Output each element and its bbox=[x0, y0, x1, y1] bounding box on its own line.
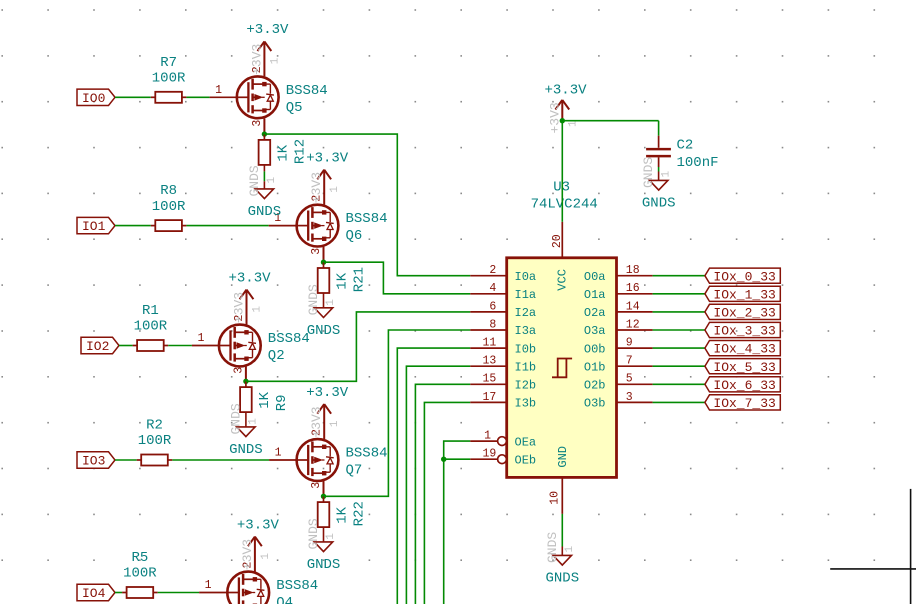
svg-text:IOx_5_33: IOx_5_33 bbox=[713, 360, 775, 375]
wire O1a to IOx_1_33 bbox=[653, 293, 705, 295]
wire Q2 drain to I2a bbox=[246, 312, 470, 381]
svg-text:100R: 100R bbox=[123, 566, 157, 582]
junction node on OEb wire bbox=[441, 457, 446, 462]
hierarchical label IO0 bbox=[77, 89, 115, 106]
hierarchical label IOx_4_33 bbox=[705, 341, 780, 357]
pin 3 of Q6 bbox=[310, 247, 324, 263]
svg-text:16: 16 bbox=[626, 282, 640, 295]
hidden pin text +3V3 at Q7 bbox=[309, 406, 341, 437]
svg-text:GNDS: GNDS bbox=[545, 570, 579, 586]
pin 3 of Q2 bbox=[232, 366, 246, 382]
label BSS84 Q2 bbox=[268, 331, 310, 347]
hidden pin text GNDS at R12 bbox=[247, 165, 278, 196]
svg-text:1: 1 bbox=[661, 171, 673, 178]
svg-text:+3V3: +3V3 bbox=[249, 44, 264, 75]
svg-text:OEa: OEa bbox=[515, 435, 537, 449]
svg-text:+3V3: +3V3 bbox=[547, 102, 562, 133]
hidden pin text GNDS at C2 bbox=[641, 157, 673, 188]
junction node +3V3 bbox=[560, 118, 565, 123]
svg-text:1K: 1K bbox=[335, 272, 351, 289]
svg-text:GNDS: GNDS bbox=[229, 442, 263, 458]
label 100R of R1 bbox=[134, 319, 168, 335]
pin 1 OEa of U3 bbox=[470, 430, 536, 450]
hidden pin text +3V3 at U3 bbox=[547, 102, 579, 133]
svg-text:R1: R1 bbox=[142, 303, 159, 319]
svg-text:1: 1 bbox=[205, 579, 212, 592]
pin 9 O0b of U3 bbox=[584, 337, 653, 357]
svg-text:3: 3 bbox=[310, 248, 323, 255]
svg-text:R9: R9 bbox=[274, 394, 290, 411]
svg-text:+3.3V: +3.3V bbox=[237, 517, 280, 533]
svg-text:1K: 1K bbox=[275, 144, 291, 161]
junction node at Q6 drain bbox=[321, 260, 326, 265]
svg-text:2: 2 bbox=[489, 264, 496, 277]
svg-text:100R: 100R bbox=[152, 71, 186, 87]
svg-text:100R: 100R bbox=[134, 319, 168, 335]
svg-text:O1a: O1a bbox=[584, 288, 606, 302]
wire R5 to Q4 gate bbox=[158, 592, 199, 594]
svg-text:IOx_4_33: IOx_4_33 bbox=[713, 342, 775, 357]
svg-text:1: 1 bbox=[564, 546, 576, 553]
svg-text:19: 19 bbox=[482, 448, 496, 461]
pin 2 of Q2 bbox=[233, 290, 247, 325]
label 74LVC244 bbox=[531, 197, 598, 213]
wire O0b to IOx_4_33 bbox=[653, 347, 705, 349]
wire O2b to IOx_6_33 bbox=[653, 383, 705, 385]
ground GNDS flag at C2 bbox=[650, 180, 668, 190]
svg-text:R7: R7 bbox=[160, 55, 177, 71]
label 1K of R21 bbox=[335, 272, 351, 289]
svg-text:GNDS: GNDS bbox=[642, 195, 676, 211]
wire IO4 to R5 bbox=[115, 592, 122, 594]
svg-text:R2: R2 bbox=[146, 418, 163, 434]
svg-text:6: 6 bbox=[489, 300, 496, 313]
label 100R of R2 bbox=[138, 433, 172, 449]
label R1 bbox=[142, 303, 159, 319]
svg-text:7: 7 bbox=[626, 355, 633, 368]
pin 13 I1b of U3 bbox=[470, 355, 536, 375]
svg-text:O0a: O0a bbox=[584, 270, 606, 284]
svg-text:I2b: I2b bbox=[515, 379, 537, 393]
wire to I1b bbox=[406, 366, 470, 604]
wire R2 to Q7 gate bbox=[172, 459, 269, 461]
label Q4 bbox=[276, 595, 293, 604]
wire R12 to GNDS bbox=[263, 165, 265, 189]
pin 2 of Q5 bbox=[251, 41, 265, 76]
pin 16 O1a of U3 bbox=[584, 282, 653, 302]
pin 4 I1a of U3 bbox=[470, 282, 536, 302]
hierarchical label IOx_1_33 bbox=[705, 286, 780, 302]
resistor R22 1K bbox=[318, 496, 330, 527]
label R8 bbox=[160, 183, 177, 199]
svg-text:R8: R8 bbox=[160, 183, 177, 199]
label 1K of R9 bbox=[257, 391, 273, 408]
svg-text:IO0: IO0 bbox=[82, 91, 105, 106]
svg-text:74LVC244: 74LVC244 bbox=[531, 197, 598, 213]
label BSS84 Q5 bbox=[286, 83, 328, 99]
svg-text:IOx_6_33: IOx_6_33 bbox=[713, 378, 775, 393]
svg-text:I1a: I1a bbox=[515, 288, 537, 302]
svg-text:+3V3: +3V3 bbox=[309, 406, 324, 437]
label GNDS at R21 bbox=[307, 323, 341, 339]
svg-text:R12: R12 bbox=[293, 139, 309, 164]
svg-text:Q7: Q7 bbox=[346, 463, 363, 479]
hidden pin text +3V3 at Q6 bbox=[309, 172, 341, 203]
svg-text:BSS84: BSS84 bbox=[276, 578, 318, 594]
resistor R9 1K bbox=[240, 381, 252, 412]
ground GNDS flag at R12 bbox=[255, 189, 273, 199]
svg-text:11: 11 bbox=[482, 337, 496, 350]
label GNDS at C2 bbox=[642, 195, 676, 211]
pin 3 O3b of U3 bbox=[584, 391, 653, 411]
pin 12 O3a of U3 bbox=[584, 318, 653, 338]
label 100R of R5 bbox=[123, 566, 157, 582]
svg-text:GNDS: GNDS bbox=[307, 557, 341, 573]
pin 19 OEb of U3 bbox=[470, 448, 536, 468]
power +3.3V at Q6 bbox=[306, 150, 349, 179]
resistor R2 100R bbox=[137, 455, 173, 466]
svg-text:14: 14 bbox=[626, 300, 640, 313]
wire +3V3 to C2 bbox=[562, 121, 658, 136]
svg-text:BSS84: BSS84 bbox=[346, 211, 388, 227]
svg-text:9: 9 bbox=[626, 337, 633, 350]
hierarchical label IO3 bbox=[77, 452, 115, 469]
pin 2 of Q6 bbox=[311, 170, 325, 205]
label BSS84 Q7 bbox=[346, 446, 388, 462]
label U3 bbox=[553, 180, 570, 196]
svg-text:15: 15 bbox=[482, 373, 496, 386]
svg-text:IO3: IO3 bbox=[82, 454, 105, 469]
svg-text:O3b: O3b bbox=[584, 397, 606, 411]
pin 2 I0a of U3 bbox=[470, 264, 536, 284]
svg-text:GNDS: GNDS bbox=[306, 518, 321, 549]
svg-text:IO2: IO2 bbox=[86, 339, 109, 354]
label GNDS at R12 bbox=[248, 204, 282, 220]
pin 20 VCC of U3 bbox=[551, 222, 570, 291]
svg-text:VCC: VCC bbox=[556, 269, 570, 291]
junction node at Q5 drain bbox=[262, 131, 267, 136]
svg-text:C2: C2 bbox=[677, 137, 694, 153]
svg-text:+3V3: +3V3 bbox=[232, 292, 247, 323]
pin 1 of Q7 bbox=[269, 447, 297, 461]
label R12 bbox=[293, 139, 309, 164]
hidden pin text +3V3 at Q5 bbox=[249, 44, 281, 75]
label 100R of R7 bbox=[152, 71, 186, 87]
svg-text:1: 1 bbox=[329, 420, 341, 427]
svg-text:IOx_7_33: IOx_7_33 bbox=[713, 396, 775, 411]
pin 7 O1b of U3 bbox=[584, 355, 653, 375]
wire O0a to IOx_0_33 bbox=[653, 275, 705, 277]
svg-text:GNDS: GNDS bbox=[307, 323, 341, 339]
label 1K of R12 bbox=[275, 144, 291, 161]
IC U3 74LVC244 body bbox=[507, 258, 617, 478]
pin 1 of Q2 bbox=[192, 332, 219, 346]
hidden pin text +3V3 at Q2 bbox=[232, 292, 264, 323]
resistor R1 100R bbox=[133, 340, 169, 351]
svg-text:BSS84: BSS84 bbox=[346, 446, 388, 462]
svg-text:100R: 100R bbox=[138, 433, 172, 449]
transistor Q4 BSS84 bbox=[227, 572, 269, 604]
wire R21 to GNDS bbox=[323, 293, 325, 308]
svg-text:Q4: Q4 bbox=[276, 595, 293, 604]
svg-text:1: 1 bbox=[252, 306, 264, 313]
hierarchical label IOx_3_33 bbox=[705, 322, 780, 338]
ground GNDS flag at R22 bbox=[314, 542, 332, 552]
svg-text:1: 1 bbox=[325, 299, 337, 306]
svg-text:IOx_3_33: IOx_3_33 bbox=[713, 324, 775, 339]
svg-text:IO1: IO1 bbox=[82, 219, 106, 234]
pin 2 of Q7 bbox=[311, 404, 325, 439]
svg-text:1: 1 bbox=[197, 332, 204, 345]
svg-text:I0b: I0b bbox=[515, 342, 537, 356]
svg-text:1K: 1K bbox=[335, 506, 351, 523]
wire R22 to GNDS bbox=[323, 527, 325, 542]
wire IO3 to R2 bbox=[115, 459, 137, 461]
pin 1 of Q4 bbox=[199, 579, 227, 593]
svg-text:1: 1 bbox=[329, 186, 341, 193]
svg-text:3: 3 bbox=[251, 120, 264, 127]
svg-text:Q6: Q6 bbox=[346, 228, 363, 244]
wire GND to GNDS flag bbox=[561, 514, 563, 556]
pin 1 of Q5 bbox=[210, 84, 237, 98]
svg-text:GNDS: GNDS bbox=[545, 532, 560, 563]
svg-text:3: 3 bbox=[232, 367, 245, 374]
svg-text:+3V3: +3V3 bbox=[309, 172, 324, 203]
pin 15 I2b of U3 bbox=[470, 373, 536, 393]
wire O3a to IOx_3_33 bbox=[653, 329, 705, 331]
label Q2 bbox=[268, 348, 285, 364]
hierarchical label IOx_2_33 bbox=[705, 304, 780, 320]
pin 1 of Q6 bbox=[269, 212, 297, 226]
pin 3 of Q7 bbox=[310, 481, 324, 497]
svg-text:20: 20 bbox=[551, 234, 564, 248]
ground GNDS flag at U3 bbox=[553, 555, 571, 565]
svg-text:BSS84: BSS84 bbox=[286, 83, 328, 99]
label Q7 bbox=[346, 463, 363, 479]
wire R9 to GNDS bbox=[245, 412, 247, 427]
svg-text:Q5: Q5 bbox=[286, 100, 303, 116]
hierarchical label IOx_5_33 bbox=[705, 359, 780, 375]
junction node at Q2 drain bbox=[243, 379, 248, 384]
power +3.3V at U3 bbox=[544, 83, 587, 121]
wire Q6 drain to I1a bbox=[324, 262, 471, 294]
wire R8 to Q6 gate bbox=[186, 225, 268, 227]
svg-text:+3.3V: +3.3V bbox=[306, 385, 349, 401]
label Q5 bbox=[286, 100, 303, 116]
svg-text:1: 1 bbox=[247, 418, 259, 425]
label BSS84 Q4 bbox=[276, 578, 318, 594]
svg-text:+3V3: +3V3 bbox=[240, 539, 255, 570]
label Q6 bbox=[346, 228, 363, 244]
wire O2a to IOx_2_33 bbox=[653, 311, 705, 313]
svg-text:I3a: I3a bbox=[515, 324, 537, 338]
power +3.3V at Q2 bbox=[228, 270, 271, 299]
svg-text:5: 5 bbox=[626, 373, 633, 386]
label 100R of R8 bbox=[152, 199, 186, 215]
label C2 bbox=[677, 137, 694, 153]
svg-text:12: 12 bbox=[626, 318, 640, 331]
svg-text:1: 1 bbox=[484, 430, 491, 443]
svg-text:1: 1 bbox=[260, 553, 272, 560]
wire O1b to IOx_5_33 bbox=[653, 365, 705, 367]
label GNDS at R9 bbox=[229, 442, 263, 458]
svg-text:+3.3V: +3.3V bbox=[544, 83, 587, 99]
svg-text:R22: R22 bbox=[352, 501, 368, 526]
svg-text:GND: GND bbox=[556, 446, 570, 468]
hidden pin text GNDS at U3 bbox=[545, 532, 576, 563]
ground GNDS flag at R21 bbox=[314, 308, 332, 318]
svg-text:100nF: 100nF bbox=[677, 155, 719, 171]
svg-text:10: 10 bbox=[548, 491, 561, 505]
svg-text:3: 3 bbox=[626, 391, 633, 404]
wire to I2b bbox=[415, 384, 470, 604]
pin 6 I2a of U3 bbox=[470, 300, 536, 320]
pin 10 GND of U3 bbox=[548, 446, 570, 514]
hierarchical label IOx_7_33 bbox=[705, 395, 780, 411]
wire +3V3 to VCC bbox=[561, 121, 563, 222]
svg-text:GNDS: GNDS bbox=[228, 403, 243, 434]
pin 2 of Q4 bbox=[241, 537, 255, 572]
pin 11 I0b of U3 bbox=[470, 337, 536, 357]
svg-text:O3a: O3a bbox=[584, 324, 606, 338]
wire to I0b bbox=[397, 348, 470, 604]
transistor Q5 BSS84 bbox=[237, 76, 279, 118]
svg-text:18: 18 bbox=[626, 264, 640, 277]
label R2 bbox=[146, 418, 163, 434]
svg-text:+3.3V: +3.3V bbox=[246, 22, 289, 38]
hidden pin text GNDS at R21 bbox=[306, 284, 337, 315]
wire R7 to Q5 gate bbox=[186, 96, 209, 98]
resistor R5 100R bbox=[122, 587, 158, 598]
svg-text:GNDS: GNDS bbox=[641, 157, 656, 188]
pin 5 O2b of U3 bbox=[584, 373, 653, 393]
junction node at Q7 drain bbox=[321, 494, 326, 499]
wire Q7 drain to I3a bbox=[324, 330, 471, 496]
svg-text:IOx_1_33: IOx_1_33 bbox=[713, 287, 775, 302]
resistor R21 1K bbox=[318, 262, 330, 293]
pin 18 O0a of U3 bbox=[584, 264, 653, 284]
ground GNDS flag at R9 bbox=[237, 427, 255, 437]
svg-text:I2a: I2a bbox=[515, 306, 537, 320]
svg-text:100R: 100R bbox=[152, 199, 186, 215]
svg-text:IOx_0_33: IOx_0_33 bbox=[713, 269, 775, 284]
svg-text:1: 1 bbox=[266, 177, 278, 184]
svg-text:OEb: OEb bbox=[515, 453, 537, 467]
schmitt trigger symbol in U3 bbox=[552, 359, 572, 378]
svg-text:1: 1 bbox=[325, 533, 337, 540]
wire OEa OEb to GNDS net bbox=[444, 441, 471, 604]
hidden pin text GNDS at R9 bbox=[228, 403, 259, 434]
svg-text:I1b: I1b bbox=[515, 360, 537, 374]
svg-text:R5: R5 bbox=[131, 550, 148, 566]
svg-text:IOx_2_33: IOx_2_33 bbox=[713, 306, 775, 321]
label R21 bbox=[352, 267, 368, 292]
transistor Q7 BSS84 bbox=[297, 439, 339, 481]
wire R1 to Q2 gate bbox=[168, 345, 192, 347]
wire IO0 to R7 bbox=[115, 96, 151, 98]
svg-text:I3b: I3b bbox=[515, 397, 537, 411]
transistor Q6 BSS84 bbox=[297, 205, 339, 247]
wire C2 to GNDS bbox=[658, 167, 660, 180]
svg-text:13: 13 bbox=[482, 355, 496, 368]
transistor Q2 BSS84 bbox=[219, 325, 261, 367]
svg-text:O2a: O2a bbox=[584, 306, 606, 320]
label 100nF bbox=[677, 155, 719, 171]
label GNDS at R22 bbox=[307, 557, 341, 573]
svg-text:1K: 1K bbox=[257, 391, 273, 408]
power +3.3V at Q7 bbox=[306, 385, 349, 414]
power +3.3V at Q5 bbox=[246, 22, 289, 51]
hidden pin text +3V3 at Q4 bbox=[240, 539, 272, 570]
svg-text:O0b: O0b bbox=[584, 342, 606, 356]
wire to I3b bbox=[424, 402, 470, 604]
pin 14 O2a of U3 bbox=[584, 300, 653, 320]
svg-text:IO4: IO4 bbox=[82, 586, 106, 601]
pin 17 I3b of U3 bbox=[470, 391, 536, 411]
svg-text:17: 17 bbox=[482, 391, 496, 404]
label GNDS at U3 bbox=[545, 570, 579, 586]
pin 8 I3a of U3 bbox=[470, 318, 536, 338]
sheet border frame bbox=[830, 489, 916, 604]
label R7 bbox=[160, 55, 177, 71]
svg-text:I0a: I0a bbox=[515, 270, 537, 284]
wire IO2 to R1 bbox=[119, 345, 133, 347]
pin 3 of Q5 bbox=[251, 118, 265, 134]
svg-text:R21: R21 bbox=[352, 267, 368, 292]
svg-text:1: 1 bbox=[275, 447, 282, 460]
svg-text:O1b: O1b bbox=[584, 360, 606, 374]
svg-text:8: 8 bbox=[489, 318, 496, 331]
hierarchical label IO4 bbox=[77, 584, 115, 601]
wire IO1 to R8 bbox=[115, 225, 151, 227]
svg-text:+3.3V: +3.3V bbox=[228, 270, 271, 286]
wire O3b to IOx_7_33 bbox=[653, 401, 705, 403]
capacitor C2 100nF bbox=[646, 136, 671, 167]
hierarchical label IO1 bbox=[77, 217, 115, 234]
resistor R7 100R bbox=[151, 92, 187, 103]
label R5 bbox=[131, 550, 148, 566]
svg-text:GNDS: GNDS bbox=[247, 165, 262, 196]
label 1K of R22 bbox=[335, 506, 351, 523]
svg-text:1: 1 bbox=[215, 84, 222, 97]
svg-text:BSS84: BSS84 bbox=[268, 331, 310, 347]
label BSS84 Q6 bbox=[346, 211, 388, 227]
wire Q5 drain to I0a bbox=[264, 134, 470, 276]
hidden pin text GNDS at R22 bbox=[306, 518, 337, 549]
svg-text:1: 1 bbox=[269, 57, 281, 64]
hierarchical label IOx_6_33 bbox=[705, 377, 780, 393]
svg-text:+3.3V: +3.3V bbox=[306, 150, 349, 166]
hierarchical label IOx_0_33 bbox=[705, 268, 780, 284]
hierarchical label IO2 bbox=[81, 337, 119, 354]
svg-text:Q2: Q2 bbox=[268, 348, 285, 364]
svg-text:GNDS: GNDS bbox=[306, 284, 321, 315]
resistor R12 1K bbox=[259, 134, 271, 165]
svg-text:GNDS: GNDS bbox=[248, 204, 282, 220]
svg-text:O2b: O2b bbox=[584, 379, 606, 393]
svg-text:4: 4 bbox=[489, 282, 496, 295]
svg-text:3: 3 bbox=[310, 482, 323, 489]
label R22 bbox=[352, 501, 368, 526]
power +3.3V at Q4 bbox=[237, 517, 280, 546]
label R9 bbox=[274, 394, 290, 411]
resistor R8 100R bbox=[151, 220, 187, 231]
